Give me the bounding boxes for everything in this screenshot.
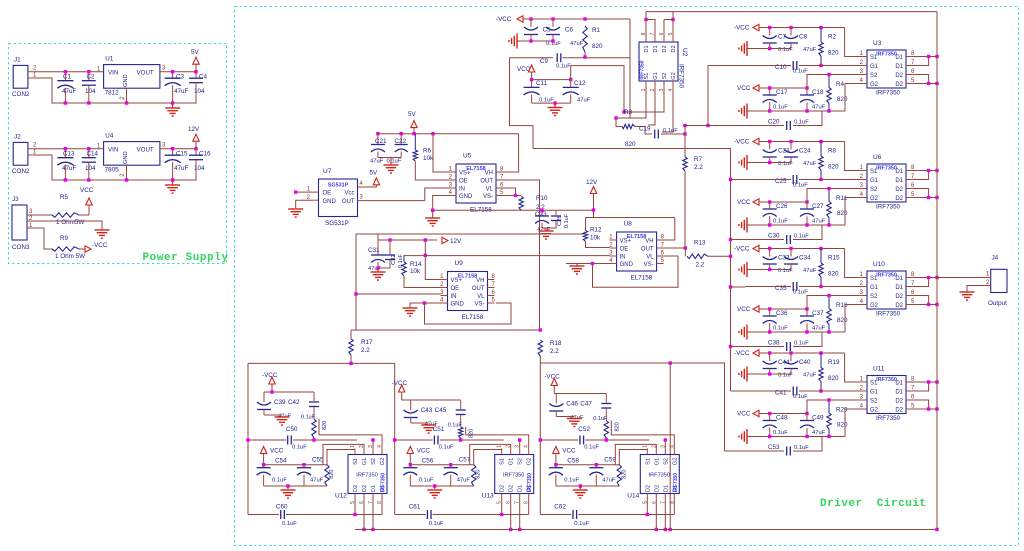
wire loop GND to VL [593,256,679,287]
capacitor C14 [88,149,90,158]
wire rail under U5 [433,209,594,211]
pin of U2 (bottom) [663,81,665,87]
wire [378,267,390,269]
wire series row 2 [540,514,571,516]
pin of U12 (top) [363,449,365,455]
svg-text:47uF: 47uF [812,430,826,436]
svg-text:2.2: 2.2 [696,262,705,269]
svg-text:CON2: CON2 [12,168,30,175]
svg-text:2.2: 2.2 [694,164,703,171]
wire input row [745,286,791,288]
svg-text:VS-: VS- [483,194,493,200]
pin 8 of U5 [496,171,503,173]
wire [411,422,429,424]
wire series row [248,439,286,441]
svg-text:R14: R14 [410,261,422,268]
capacitor C56 0.1uF [409,465,411,468]
power port 12V [590,187,596,194]
power port VCC [260,447,266,454]
svg-text:G1: G1 [870,178,879,184]
svg-text:820: 820 [828,50,839,57]
pin 6 of U5 [496,187,503,189]
svg-text:-VCC: -VCC [262,372,278,379]
wire VH to 5V [496,134,519,172]
wire -VCC to S1 [845,142,859,171]
svg-text:G1: G1 [362,458,368,465]
svg-text:VS+: VS+ [451,278,463,284]
wire [570,66,572,80]
pin 6 of U9 [488,295,495,297]
capacitor C39 47uF [263,392,265,402]
svg-text:C49: C49 [812,415,824,422]
svg-text:C16: C16 [199,151,211,158]
svg-text:D1: D1 [895,55,903,61]
wire loop around U9 [356,233,586,235]
pin 4 of U6 [859,197,867,199]
svg-text:0.1uF: 0.1uF [793,290,808,296]
wire [555,454,557,465]
svg-text:IRF7350: IRF7350 [381,473,387,492]
capacitor C34 47uF [790,249,792,257]
svg-text:1: 1 [497,445,503,448]
svg-text:D1: D1 [371,485,377,492]
pin 7 of U6 [906,179,914,181]
svg-text:D2: D2 [500,485,506,492]
svg-text:C56: C56 [422,458,434,465]
svg-text:R16: R16 [836,302,848,309]
svg-text:D2: D2 [895,399,903,405]
svg-text:Vcc: Vcc [344,191,354,197]
pin 2 of U5 [449,179,456,181]
svg-text:IRF7350: IRF7350 [876,52,897,58]
svg-text:G2: G2 [870,408,879,414]
svg-text:D2: D2 [895,82,903,88]
wire [532,102,571,104]
wire GND pin [566,263,610,265]
svg-text:C28: C28 [557,215,563,226]
svg-text:820: 820 [329,470,335,479]
svg-text:D1: D1 [895,64,903,70]
capacitor C25 0.1uF [792,175,794,184]
svg-text:D1: D1 [895,390,903,396]
svg-text:D2: D2 [895,408,903,414]
staircase wires to chip top pins [619,449,647,465]
power port VCC [88,205,90,215]
svg-text:VL: VL [477,294,485,300]
wire [539,356,541,363]
wire input row [745,390,791,392]
pin of U14 (bottom) [655,494,657,500]
pin 1 of J1 [28,77,34,79]
svg-text:820: 820 [837,422,848,429]
wire [629,19,631,118]
svg-text:U13: U13 [482,493,494,500]
wire -VCC rail [759,352,845,354]
svg-text:47uF: 47uF [812,105,826,111]
wire [747,162,791,164]
resistor (rotated) 820 [459,427,463,438]
pin 4 of U11 [859,408,867,410]
svg-text:C33: C33 [778,255,790,262]
capacitor C48 0.1uF [769,414,771,421]
power port VCC [407,447,413,454]
ground [390,158,392,166]
resistor R8 820 [820,142,822,157]
power port 5V [411,121,417,128]
pin 7 of U9 [488,287,495,289]
capacitor C54 0.1uF [263,465,265,468]
svg-text:U8: U8 [624,221,633,228]
wire -VCC to S1 [845,249,859,278]
pin 5 of U11 [906,408,914,410]
svg-text:VH: VH [485,171,493,177]
capacitor C59 47uF [595,465,597,468]
wire ground rail [747,224,845,226]
wire U7 OUT to IN [425,188,449,201]
staircase wires to chip top pins [474,449,502,465]
svg-text:SG531P: SG531P [328,183,349,189]
pin 3 of U8 [610,255,617,257]
pin 7 of U11 [906,390,914,392]
svg-text:IRF7350: IRF7350 [503,473,524,479]
regulator U1 7812 [104,65,160,89]
wire bottom coupling row [731,346,785,348]
capacitor C35 0.1uF [792,282,794,291]
wire [635,127,652,135]
capacitor C6 47uF [552,19,554,27]
svg-text:U4: U4 [105,133,114,140]
svg-text:0.1uF: 0.1uF [556,64,571,70]
svg-text:U7: U7 [323,168,332,175]
svg-text:R20: R20 [836,407,848,414]
resistor (rotated) 820 [604,421,608,439]
svg-text:R2: R2 [828,34,837,41]
svg-text:820: 820 [592,43,603,50]
wire R6 to OE [415,161,449,180]
mosfet U2 IRF7350 (rotated) [639,42,678,81]
svg-text:G1: G1 [870,285,879,291]
svg-text:5V: 5V [191,49,200,56]
svg-text:820: 820 [625,141,636,148]
ground [403,307,418,309]
svg-text:820: 820 [828,271,839,278]
svg-text:OUT: OUT [641,247,654,253]
ground [421,424,436,426]
svg-text:820: 820 [837,210,848,217]
svg-text:S1: S1 [870,55,878,61]
resistor R9 1 Ohm 5W [52,247,79,251]
pin 5 of U8 [657,263,664,265]
wire R12 to OE [586,241,610,247]
svg-text:820: 820 [476,470,482,479]
wire ground rail [556,485,619,487]
pin 6 of U8 [657,255,664,257]
capacitor C7 0.1uF [769,28,771,36]
wire U13 left trunk [394,363,396,514]
svg-text:Power Supply: Power Supply [143,252,229,264]
svg-text:820: 820 [469,429,475,438]
svg-text:0.1uF: 0.1uF [301,415,316,421]
pin 8 of U3 [906,56,914,58]
wire U2 bottom pins web [616,87,646,118]
svg-text:VS-: VS- [644,262,654,268]
wire R8 to G1 [819,178,822,181]
resistor R16 820 [828,296,830,309]
ground [554,103,556,107]
svg-text:IRF7350: IRF7350 [678,64,685,89]
pin of U12 (bottom) [354,494,356,500]
pin 3 of U9 [441,295,448,297]
wire [584,52,586,58]
pin of U2 (top) [654,36,656,42]
svg-text:U10: U10 [873,261,885,268]
svg-text:2.2: 2.2 [361,347,370,354]
power port 12V [195,141,197,149]
pin 5 of U6 [906,197,914,199]
ground [377,268,379,272]
resistor (rotated) 820 [617,465,621,486]
wire cluster top [264,391,314,393]
svg-text:12V: 12V [188,126,200,133]
svg-text:C31: C31 [368,247,380,254]
wire [264,414,282,416]
svg-text:D1: D1 [663,485,669,492]
svg-text:R17: R17 [361,339,373,346]
wire [377,234,379,240]
svg-text:0.1uF: 0.1uF [778,268,793,274]
svg-text:IN: IN [620,255,626,261]
svg-text:VL: VL [646,255,654,261]
capacitor C21 47uF [377,134,379,145]
svg-text:104: 104 [194,165,205,172]
svg-text:0.1uF: 0.1uF [778,373,793,379]
pin 1 of J2 [28,154,34,156]
capacitor C55 47uF [303,465,305,468]
svg-text:VOUT: VOUT [137,147,154,154]
svg-text:0.1uF: 0.1uF [564,213,570,228]
pin 1 of U9 [441,279,448,281]
ground (rotated) [746,218,748,233]
svg-text:47uF: 47uF [174,165,189,172]
pin of U2 (bottom) [672,81,674,87]
resistor R5 1 Ohm5W [52,213,79,217]
svg-text:IRF7350: IRF7350 [527,473,533,492]
svg-text:VS-: VS- [474,302,484,308]
capacitor C46 47uF [555,394,557,404]
svg-text:VH: VH [645,239,653,245]
svg-text:C20: C20 [768,119,780,126]
wire outputs to bus [914,171,929,180]
wire GND to ground [433,196,449,219]
svg-text:R18: R18 [550,340,562,347]
svg-text:47uF: 47uF [803,47,817,53]
capacitor C51 0.1uF [433,436,435,445]
wire [553,386,555,394]
wire ground rail [747,110,845,112]
mosfet U14 IRF7350 (rotated) [640,455,679,494]
resistor R14 10k [403,255,405,262]
pin 6 of U3 [906,74,914,76]
svg-text:C13: C13 [63,151,75,158]
pin of U2 (top) [645,36,647,42]
wire [593,194,595,218]
svg-text:C51: C51 [433,426,445,433]
svg-text:7805: 7805 [105,166,120,173]
svg-text:C40: C40 [799,359,811,366]
pin 4 of U5 [449,195,456,197]
capacitor C16 [195,149,197,156]
svg-text:IRF7350: IRF7350 [649,473,670,479]
capacitor C4 [195,72,197,79]
svg-text:C15: C15 [176,151,188,158]
ground [287,486,289,489]
pin 2 of U7 [312,199,319,201]
pin 3 of U3 [859,74,867,76]
svg-text:0.1uF: 0.1uF [429,521,444,527]
pin 3 of U5 [449,187,456,189]
wire series row 2 [395,514,426,516]
svg-text:VS+: VS+ [459,171,471,177]
pin 1 of U5 [449,171,456,173]
svg-text:C23: C23 [778,148,790,155]
pin 2 of J3 [27,220,34,222]
svg-text:820: 820 [837,96,848,103]
svg-text:S2: S2 [518,458,524,465]
svg-text:VH: VH [476,278,484,284]
svg-text:-VCC: -VCC [734,350,750,357]
wire G2 [845,409,859,437]
svg-text:C59: C59 [604,457,616,464]
pin of U13 (top) [501,449,503,455]
wire [34,78,197,103]
wire -VCC rail [759,141,845,143]
svg-text:G2: G2 [672,458,678,465]
wire OUT down to R18 [496,180,540,330]
svg-text:0.1uF: 0.1uF [793,183,808,189]
svg-text:D2: D2 [895,294,903,300]
resistor R20 820 [828,400,830,413]
svg-text:0.1uF: 0.1uF [794,341,809,347]
svg-text:CON3: CON3 [12,244,30,251]
svg-text:S2: S2 [870,399,878,405]
svg-text:VCC: VCC [737,411,751,418]
svg-text:5V: 5V [370,170,379,177]
wire [747,373,791,375]
svg-text:VCC: VCC [737,85,751,92]
svg-text:IRF7350: IRF7350 [356,473,377,479]
svg-text:-VCC: -VCC [734,246,750,253]
pin of U14 (top) [655,449,657,455]
svg-text:C6: C6 [565,27,574,34]
resistor (rotated) 820 [325,465,329,486]
capacitor C61 0.1uF [426,510,428,519]
capacitor C22 0.1uF [400,134,402,145]
pin 1 of J4 [984,277,991,279]
pin 1 of U10 [859,277,867,279]
ground [960,291,975,293]
resistor R17 2.2 [350,330,352,339]
pin of U13 (top) [519,449,521,455]
svg-text:C45: C45 [435,407,447,414]
pin of U14 (bottom) [664,494,666,500]
resistor R15 820 [820,249,822,264]
wire U7 OUT to U5 IN [364,200,425,202]
svg-text:47uF: 47uF [577,98,591,104]
wire [616,118,622,127]
wire [271,384,273,392]
wire bottom distribution [248,362,395,364]
wire [747,48,791,50]
svg-text:820: 820 [322,421,328,430]
svg-text:C53: C53 [768,444,780,451]
svg-text:C27: C27 [812,203,824,210]
resistor R18 2.2 [538,340,542,356]
svg-text:J3: J3 [12,196,19,203]
pin 3 of J3 [27,214,34,216]
wire VCC to S2 row [807,400,859,414]
ground (rotated) [746,155,748,170]
capacitor C2 [88,72,90,81]
svg-text:SG531P: SG531P [325,220,349,227]
wire input row [745,179,791,181]
svg-text:OE: OE [620,247,629,253]
wire [34,155,197,180]
pin of U14 (bottom) [646,494,648,500]
pin of U2 (top) [663,36,665,42]
svg-text:47uF: 47uF [62,165,77,172]
pin 3 of U7 [358,200,365,202]
pin 5 of U10 [906,304,914,306]
wire -VCC to S1 [845,28,859,57]
svg-text:-VCC: -VCC [734,139,750,146]
wire [401,392,403,400]
wire ground rail [264,485,327,487]
ground [425,217,440,219]
resistor R6 10k [414,134,416,150]
svg-text:C14: C14 [87,151,99,158]
svg-text:G1: G1 [870,390,879,396]
svg-text:U12: U12 [335,493,347,500]
connector J2 [13,142,28,165]
capacitor C3 [172,72,174,79]
svg-text:10k: 10k [410,268,421,275]
svg-text:VCC: VCC [417,448,431,455]
svg-text:0.1uF: 0.1uF [773,430,788,436]
svg-text:0.1uF: 0.1uF [794,445,809,451]
resistor R12 10k [583,231,587,242]
svg-text:2.2: 2.2 [550,348,559,355]
wire 12V to VS+ [425,240,440,280]
capacitor C15 [172,149,174,156]
wire VCC rail [759,87,807,89]
svg-text:GND: GND [451,302,465,308]
svg-text:IN: IN [451,294,457,300]
svg-text:S1: S1 [353,458,359,465]
pin 4 of U9 [441,302,448,304]
ground [567,418,582,420]
capacitor C37 47uF [806,309,808,316]
wire output bus [936,12,938,530]
ground [172,180,174,185]
capacitor C26 0.1uF [769,202,771,209]
wire OUT to R13 [664,247,686,249]
svg-text:820: 820 [621,470,627,479]
connector J4 [991,269,1007,292]
wire [517,40,553,42]
wire [413,128,415,134]
wire U9 IN feed [356,293,441,295]
svg-text:D2: D2 [895,73,903,79]
